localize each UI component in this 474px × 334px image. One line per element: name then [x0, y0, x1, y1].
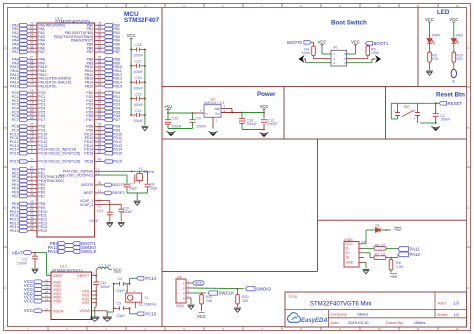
svg-text:PC7: PC7: [38, 118, 45, 122]
svg-text:C17: C17: [135, 60, 141, 64]
svg-text:B: B: [4, 126, 6, 130]
svg-text:PC14: PC14: [145, 276, 157, 281]
svg-text:PD7: PD7: [113, 118, 120, 122]
svg-text:88: 88: [98, 116, 102, 120]
svg-text:SWDIO: SWDIO: [256, 286, 271, 291]
svg-text:PB7: PB7: [87, 50, 94, 54]
svg-text:VBAT: VBAT: [12, 250, 23, 255]
svg-text:PE15: PE15: [10, 229, 19, 233]
svg-text:+5V: +5V: [390, 274, 398, 279]
svg-text:100nF: 100nF: [100, 285, 111, 289]
svg-text:PC7: PC7: [12, 118, 19, 122]
svg-text:64: 64: [30, 116, 34, 120]
svg-text:IP1: IP1: [333, 46, 338, 50]
svg-text:R7: R7: [375, 253, 380, 257]
svg-text:22: 22: [45, 307, 49, 311]
svg-text:510: 510: [456, 57, 462, 61]
svg-text:VDDA: VDDA: [53, 309, 64, 313]
svg-text:BOOT1: BOOT1: [374, 41, 389, 46]
svg-text:VDD: VDD: [53, 300, 61, 304]
svg-text:PE7: PE7: [12, 194, 19, 198]
svg-text:PE7: PE7: [38, 194, 45, 198]
svg-text:PA14: PA14: [48, 249, 59, 254]
svg-text:VCC: VCC: [351, 40, 360, 45]
svg-text:Reset Btn: Reset Btn: [436, 91, 465, 98]
svg-text:VCC: VCC: [318, 40, 327, 45]
svg-text:VCC: VCC: [197, 314, 206, 319]
svg-text:VBAT: VBAT: [53, 274, 63, 278]
svg-text:PC15: PC15: [10, 152, 19, 156]
svg-text:STM32F407VGTx: STM32F407VGTx: [52, 268, 83, 272]
svg-text:RST: RST: [404, 105, 410, 109]
svg-text:PC15-OSC32_OUT(PC15): PC15-OSC32_OUT(PC15): [38, 152, 80, 156]
svg-text:C15: C15: [135, 92, 141, 96]
svg-text:21: 21: [91, 272, 95, 276]
svg-text:PA15: PA15: [10, 84, 19, 88]
svg-text:Company:: Company:: [331, 313, 348, 317]
svg-text:BOOT0: BOOT0: [287, 40, 302, 45]
svg-text:TITLE:: TITLE:: [288, 295, 298, 299]
svg-text:E: E: [453, 80, 456, 84]
svg-text:1uH: 1uH: [105, 264, 112, 268]
svg-text:PD7: PD7: [86, 118, 93, 122]
svg-text:19: 19: [45, 298, 49, 302]
svg-text:Boot Switch: Boot Switch: [331, 20, 367, 27]
svg-text:54: 54: [98, 82, 102, 86]
svg-text:100nF: 100nF: [134, 70, 144, 74]
svg-text:GND: GND: [346, 261, 354, 265]
svg-text:Sheet:: Sheet:: [437, 313, 448, 317]
svg-text:PB15: PB15: [85, 84, 94, 88]
svg-text:SWCLK: SWCLK: [219, 291, 235, 296]
svg-text:10K: 10K: [242, 299, 249, 303]
svg-text:100nF: 100nF: [134, 86, 144, 90]
svg-text:VSS: VSS: [82, 301, 90, 305]
svg-text:32.768KHz: 32.768KHz: [139, 303, 157, 307]
svg-text:C16: C16: [135, 76, 141, 80]
svg-text:100nF: 100nF: [196, 124, 207, 128]
svg-text:BOOT0: BOOT0: [112, 183, 125, 187]
svg-text:R6: R6: [375, 243, 380, 247]
svg-text:46: 46: [30, 227, 34, 231]
svg-text:100K: 100K: [302, 51, 311, 55]
svg-text:C4: C4: [118, 277, 123, 281]
svg-text:Drawn By:: Drawn By:: [386, 321, 404, 325]
svg-text:VCC: VCC: [195, 282, 203, 286]
svg-text:AMS1117-3.3: AMS1117-3.3: [204, 101, 224, 105]
svg-text:PC15-OSC32_OUT(PC15): PC15-OSC32_OUT(PC15): [38, 160, 80, 164]
svg-text:r3bers: r3bers: [414, 320, 425, 325]
svg-text:C9: C9: [196, 117, 201, 121]
svg-text:330uF: 330uF: [247, 122, 258, 126]
svg-text:+5V: +5V: [394, 227, 402, 232]
svg-text:REV:: REV:: [438, 301, 447, 305]
svg-text:C14: C14: [135, 109, 141, 113]
svg-text:PD15: PD15: [113, 152, 122, 156]
svg-text:VCC: VCC: [449, 17, 458, 22]
svg-text:VCC: VCC: [127, 33, 136, 38]
svg-text:2019-03-10: 2019-03-10: [348, 320, 369, 325]
svg-text:L1: L1: [99, 264, 103, 268]
svg-text:PA7: PA7: [38, 50, 44, 54]
svg-text:C13: C13: [172, 117, 179, 121]
svg-text:1/1: 1/1: [454, 312, 460, 317]
svg-text:1.0: 1.0: [453, 300, 459, 305]
svg-text:100nF: 100nF: [134, 119, 144, 123]
svg-text:10K: 10K: [206, 299, 213, 303]
svg-text:PA7: PA7: [12, 50, 19, 54]
svg-text:RESET: RESET: [112, 191, 125, 195]
svg-text:PA15(JTDI): PA15(JTDI): [38, 84, 56, 88]
svg-text:100nF: 100nF: [134, 103, 144, 107]
svg-text:14: 14: [98, 189, 102, 193]
svg-text:VCC: VCC: [24, 299, 33, 304]
svg-text:93: 93: [98, 48, 102, 52]
svg-text:12: 12: [455, 4, 459, 8]
svg-text:D-: D-: [346, 247, 349, 251]
svg-text:100nF: 100nF: [134, 54, 144, 58]
svg-text:C21: C21: [97, 209, 103, 213]
svg-text:VSSA: VSSA: [79, 309, 90, 313]
svg-text:Y2: Y2: [139, 167, 143, 171]
svg-text:100K: 100K: [371, 51, 380, 55]
svg-text:22: 22: [381, 243, 385, 247]
svg-text:25MHz: 25MHz: [144, 170, 155, 174]
svg-text:VCC: VCC: [24, 308, 33, 313]
svg-text:+5V: +5V: [164, 105, 173, 110]
svg-text:D+: D+: [346, 251, 350, 255]
svg-text:9: 9: [31, 158, 33, 162]
svg-text:VCAP_2: VCAP_2: [80, 203, 93, 207]
svg-text:46: 46: [98, 158, 102, 162]
svg-text:77: 77: [30, 82, 34, 86]
svg-text:Date:: Date:: [331, 321, 340, 325]
svg-text:100nF: 100nF: [268, 122, 279, 126]
svg-text:PE15: PE15: [85, 160, 94, 164]
svg-text:20pF: 20pF: [117, 289, 126, 293]
svg-text:PB7: PB7: [113, 50, 120, 54]
svg-text:NRST: NRST: [84, 191, 94, 195]
svg-text:94: 94: [98, 181, 102, 185]
svg-text:RESET: RESET: [448, 101, 463, 106]
svg-text:VCC: VCC: [260, 104, 269, 109]
svg-text:C18: C18: [135, 43, 141, 47]
svg-text:TAB: TAB: [214, 107, 219, 111]
svg-text:VCC: VCC: [425, 17, 434, 22]
svg-text:20pF: 20pF: [130, 186, 138, 190]
svg-text:20pF: 20pF: [150, 186, 158, 190]
svg-text:B: B: [467, 126, 469, 130]
svg-text:EasyEDA: EasyEDA: [301, 318, 328, 324]
svg-text:A: A: [467, 46, 469, 50]
svg-text:C5: C5: [117, 302, 122, 306]
svg-text:100nF: 100nF: [123, 210, 133, 214]
svg-text:VCC: VCC: [113, 267, 122, 272]
svg-text:LED: LED: [437, 9, 450, 16]
svg-text:BOOT0: BOOT0: [81, 183, 93, 187]
svg-text:1.5K: 1.5K: [396, 265, 404, 269]
svg-text:PC15: PC15: [10, 160, 19, 164]
svg-text:100nF: 100nF: [89, 219, 99, 223]
svg-text:38: 38: [30, 192, 34, 196]
svg-text:r3bers: r3bers: [357, 312, 368, 317]
svg-text:PH1-OSC_OUT(PH1): PH1-OSC_OUT(PH1): [59, 173, 93, 177]
svg-text:73: 73: [97, 204, 101, 208]
svg-text:20pF: 20pF: [117, 314, 126, 318]
svg-text:62: 62: [98, 150, 102, 154]
svg-text:PWR: PWR: [432, 34, 440, 38]
svg-text:SWD: SWD: [176, 304, 184, 308]
svg-text:D1: D1: [375, 224, 379, 228]
svg-text:100nF: 100nF: [17, 262, 28, 266]
svg-text:A: A: [4, 46, 6, 50]
svg-text:22: 22: [381, 253, 385, 257]
svg-text:VREF+: VREF+: [77, 274, 90, 278]
svg-text:100uF: 100uF: [172, 124, 183, 128]
svg-text:VCC: VCC: [346, 242, 353, 246]
svg-text:PD15: PD15: [84, 152, 93, 156]
svg-text:PA12: PA12: [410, 252, 421, 257]
svg-text:PB9: PB9: [456, 34, 463, 38]
svg-text:PE15: PE15: [113, 160, 122, 164]
svg-text:9: 9: [31, 150, 33, 154]
svg-text:STM32F407: STM32F407: [124, 17, 160, 24]
svg-text:510: 510: [432, 57, 438, 61]
svg-text:Y1: Y1: [144, 296, 148, 300]
svg-text:32: 32: [30, 48, 34, 52]
svg-text:100nF: 100nF: [440, 118, 451, 122]
svg-text:Out: Out: [215, 112, 220, 116]
svg-text:PE15: PE15: [38, 229, 47, 233]
svg-text:10: 10: [377, 4, 381, 8]
svg-text:STM32F407VGT6 Mini: STM32F407VGT6 Mini: [310, 302, 371, 308]
svg-text:PC15: PC15: [145, 311, 157, 316]
svg-text:Power: Power: [257, 91, 276, 98]
svg-text:PB15: PB15: [113, 84, 122, 88]
svg-text:11: 11: [417, 4, 420, 8]
svg-text:SWCLK: SWCLK: [81, 249, 97, 254]
